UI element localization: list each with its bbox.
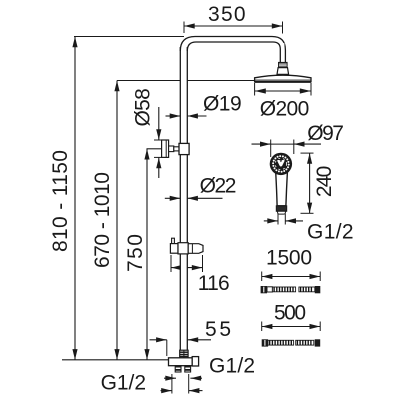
svg-text:810 - 1150: 810 - 1150 — [49, 150, 72, 252]
svg-text:350: 350 — [208, 3, 246, 26]
lower pipe nut — [180, 350, 188, 358]
dimension tee outlet width — [164, 377, 176, 379]
hand shower holder left block — [170, 244, 178, 254]
wall bracket flange — [162, 140, 169, 157]
dimension 350 — [183, 22, 185, 34]
dimension 500 hose — [261, 322, 263, 332]
rain shower head — [255, 75, 311, 82]
svg-text:1500: 1500 — [266, 246, 312, 269]
hand shower holder clip tab — [172, 238, 175, 243]
hand shower handle — [276, 172, 288, 206]
dimension &#216;200 rain head — [254, 83, 256, 96]
ground reference line — [62, 359, 169, 361]
dimension 1500 hose — [261, 272, 263, 282]
hand shower holder cone — [188, 244, 203, 254]
dimension G1/2 hand shower thread — [277, 214, 279, 225]
hand shower nut — [276, 206, 286, 212]
svg-text:Ø19: Ø19 — [203, 93, 242, 116]
tee bottom thread right — [185, 366, 191, 372]
svg-text:Ø200: Ø200 — [260, 97, 310, 120]
hose 500 — [262, 339, 268, 346]
svg-text:750: 750 — [124, 234, 147, 272]
hand shower head — [270, 153, 292, 175]
svg-text:116: 116 — [198, 272, 230, 295]
shower riser pipe — [180, 47, 187, 350]
dimension 670 - 1010 — [116, 81, 118, 360]
dimension &#216;58 wall flange — [154, 139, 162, 141]
wall bracket arm — [169, 146, 174, 152]
svg-text:670 - 1010: 670 - 1010 — [91, 172, 114, 268]
svg-text:Ø97: Ø97 — [307, 122, 344, 145]
dimension &#216;19 pipe — [166, 115, 181, 117]
svg-text:Ø22: Ø22 — [200, 175, 237, 198]
dimension 240 hand shower length — [301, 152, 314, 154]
wall bracket pipe clamp — [179, 143, 189, 154]
shower arm with bends — [180, 37, 285, 63]
hose 1500 — [261, 286, 267, 293]
tee bottom thread left — [175, 366, 181, 372]
svg-text:500: 500 — [274, 302, 306, 325]
svg-text:G1/2: G1/2 — [307, 220, 354, 243]
extension line: overall height top — [74, 36, 184, 38]
rain shower connector nut — [279, 62, 288, 67]
hand shower holder clamp — [178, 243, 188, 254]
svg-text:240: 240 — [313, 166, 336, 198]
svg-text:G1/2: G1/2 — [209, 355, 255, 378]
dimension 116 holder — [170, 255, 172, 272]
dimension G1/2 tee bottom thread — [171, 374, 173, 394]
dimension 750 — [146, 149, 148, 360]
rain shower hub — [277, 68, 289, 75]
dimension 810 - 1150 — [74, 37, 76, 360]
hand shower logo triangle — [275, 158, 286, 169]
extension line: wall bracket level — [147, 148, 163, 150]
hand shower nozzle ring — [288, 164, 290, 166]
hand shower thread tip — [278, 211, 286, 214]
dimension &#216;97 hand shower head — [252, 143, 271, 145]
dimension 55 offset — [150, 339, 167, 341]
tee body — [169, 358, 193, 366]
svg-text:Ø58: Ø58 — [132, 88, 155, 126]
svg-text:G1/2: G1/2 — [101, 372, 146, 395]
tee side outlet G1/2 — [192, 357, 198, 366]
dimension &#216;22 lower pipe — [165, 197, 181, 199]
extension line: shower head face level — [117, 80, 255, 82]
